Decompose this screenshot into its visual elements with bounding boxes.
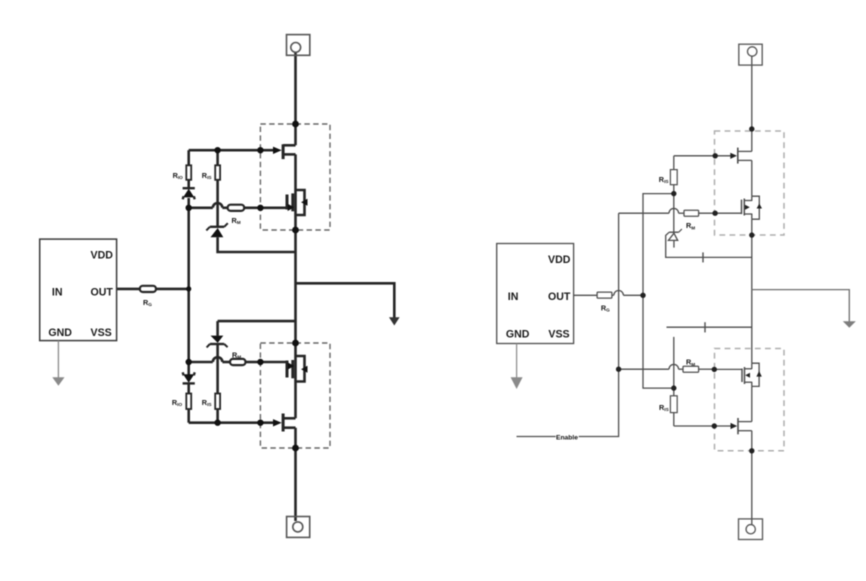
svg-text:OUT: OUT — [548, 291, 571, 303]
svg-text:GND: GND — [506, 329, 530, 341]
svg-text:GND: GND — [48, 327, 72, 339]
svg-text:VSS: VSS — [548, 329, 569, 341]
svg-text:VDD: VDD — [548, 254, 571, 266]
svg-text:Enable: Enable — [556, 434, 578, 441]
svg-text:VSS: VSS — [91, 327, 112, 339]
svg-text:IN: IN — [52, 287, 63, 299]
svg-text:IN: IN — [508, 291, 519, 303]
svg-text:VDD: VDD — [91, 249, 114, 261]
svg-text:OUT: OUT — [91, 287, 114, 299]
